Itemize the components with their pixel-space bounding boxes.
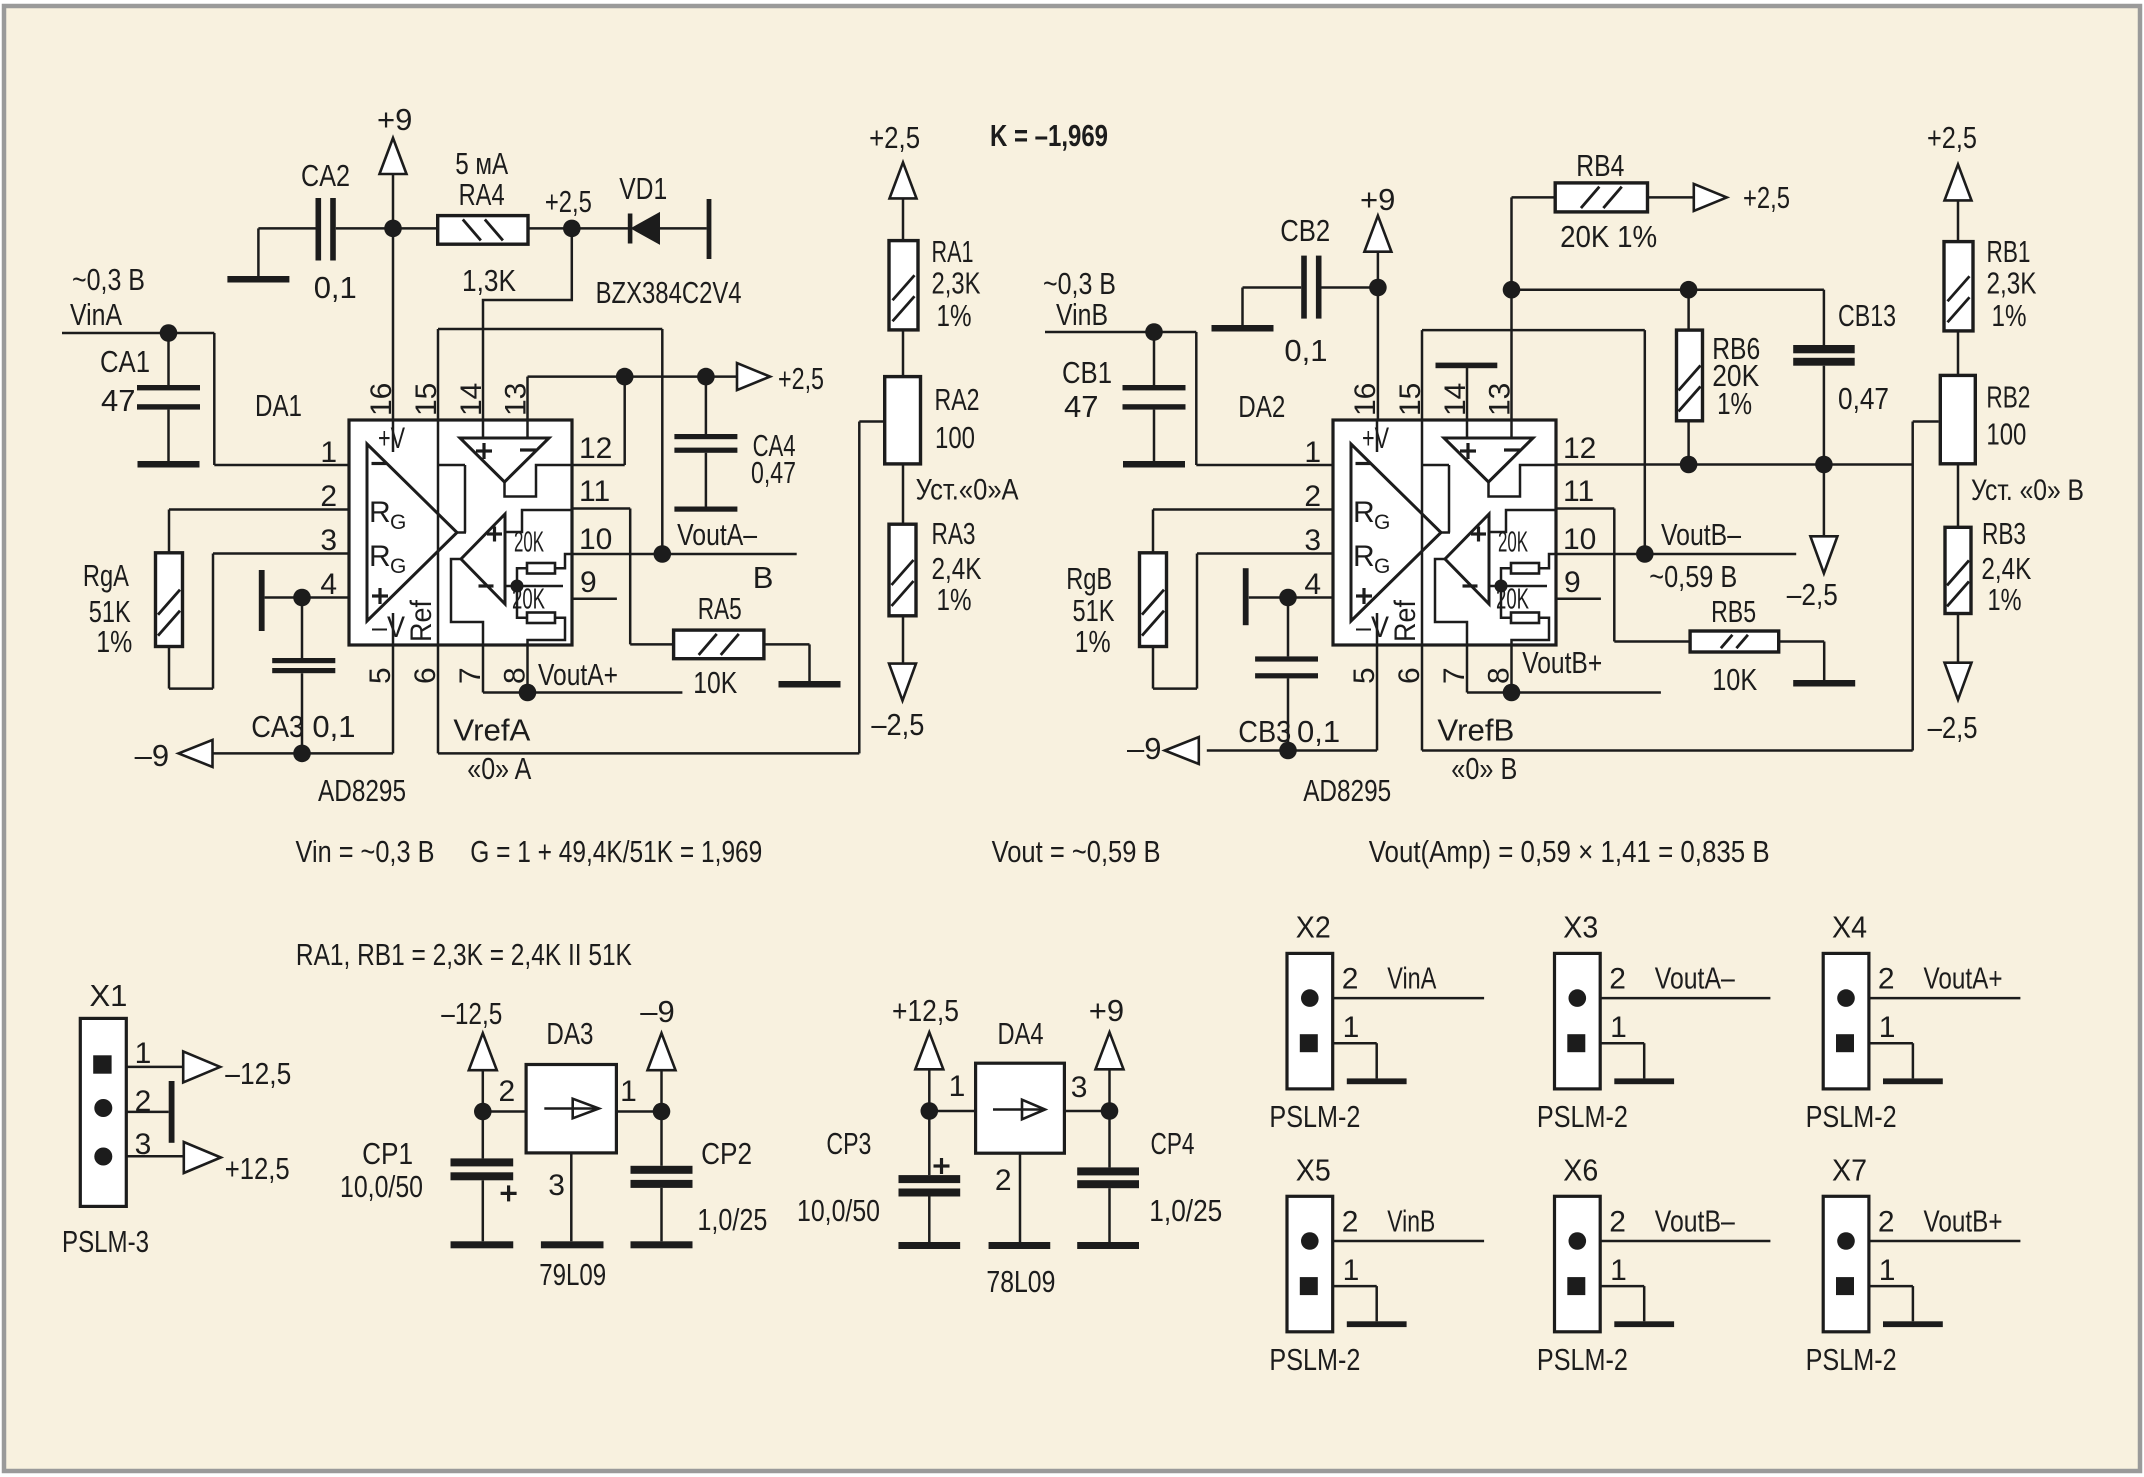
svg-text:0,1: 0,1	[1297, 714, 1340, 749]
wire pin14 bar terminal (B)	[1466, 368, 1469, 421]
svg-text:–9: –9	[640, 994, 674, 1029]
X6 pin1 square	[1567, 1277, 1585, 1295]
ground RA5	[779, 681, 841, 688]
capacitor CP1	[482, 1112, 485, 1159]
X6 pin2 circle	[1569, 1232, 1587, 1250]
X5 pin1 square	[1300, 1277, 1318, 1295]
svg-text:11: 11	[579, 475, 610, 508]
capacitor CB3	[1287, 598, 1290, 657]
arrow -12,5	[183, 1051, 220, 1082]
resistor RB2 (trim)	[1940, 375, 1975, 463]
svg-text:Vout(Amp) = 0,59 × 1,41 = 0,83: Vout(Amp) = 0,59 × 1,41 = 0,835 В	[1369, 834, 1770, 869]
arrow -12,5 up	[469, 1033, 497, 1070]
svg-text:VD1: VD1	[619, 171, 667, 206]
resistor RB1	[1944, 242, 1973, 331]
svg-text:VoutA+: VoutA+	[1924, 961, 2003, 996]
svg-text:+V: +V	[378, 422, 405, 455]
resistor RA5	[674, 630, 764, 659]
svg-text:2,4K: 2,4K	[1981, 551, 2031, 586]
svg-text:Уст. «0» В: Уст. «0» В	[1971, 474, 2084, 507]
X7 pin1 square	[1836, 1277, 1854, 1295]
wire pin15 top to VoutA- node	[438, 328, 662, 331]
ground CA4	[674, 507, 737, 512]
svg-text:R: R	[1353, 496, 1375, 529]
svg-text:3: 3	[1071, 1071, 1088, 1104]
DA3 arrow symbol	[544, 1107, 599, 1110]
arrow -2,5 (A)	[889, 664, 916, 701]
ground X2	[1347, 1078, 1407, 1084]
ground CA1	[138, 461, 200, 468]
svg-text:10,0/50: 10,0/50	[340, 1169, 423, 1204]
svg-text:RA5: RA5	[698, 591, 742, 626]
svg-text:X3: X3	[1563, 910, 1598, 945]
svg-text:CP3: CP3	[826, 1126, 871, 1161]
resistor RB4	[1512, 196, 1556, 199]
ground DA4	[989, 1242, 1051, 1249]
svg-text:CB2: CB2	[1280, 213, 1330, 248]
svg-text:G = 1 + 49,4K/51K = 1,969: G = 1 + 49,4K/51K = 1,969	[470, 834, 762, 869]
svg-text:VoutA–: VoutA–	[677, 517, 758, 552]
svg-text:100: 100	[935, 420, 975, 455]
in-amp triangle	[367, 444, 457, 621]
X7 pin2 wire VoutB+	[1869, 1240, 2021, 1243]
svg-text:5: 5	[364, 667, 397, 684]
svg-text:5 мA: 5 мA	[455, 146, 508, 181]
svg-text:1%: 1%	[1992, 298, 2027, 333]
svg-text:8: 8	[1483, 667, 1516, 684]
svg-text:1: 1	[1610, 1254, 1627, 1287]
capacitor CA3	[301, 598, 304, 659]
X7 pin2 circle	[1837, 1232, 1855, 1250]
X4 pin2 wire VoutA+	[1869, 997, 2021, 1000]
ground X3	[1614, 1078, 1674, 1084]
pin4 terminal bar	[259, 570, 265, 631]
svg-text:2: 2	[135, 1085, 152, 1118]
svg-text:10K: 10K	[1712, 662, 1757, 697]
minus mark pin1 input	[1356, 462, 1371, 465]
arrow -9 (B)	[1165, 737, 1199, 764]
svg-text:PSLM-2: PSLM-2	[1269, 1342, 1360, 1377]
svg-text:–9: –9	[1127, 731, 1161, 766]
svg-text:RB4: RB4	[1576, 148, 1624, 183]
svg-text:2: 2	[499, 1075, 516, 1108]
svg-text:0,47: 0,47	[1838, 381, 1889, 416]
svg-text:2: 2	[995, 1164, 1012, 1197]
svg-text:1%: 1%	[1717, 386, 1752, 421]
capacitor CP2	[660, 1112, 663, 1166]
plus mark pin4 input	[372, 594, 388, 597]
svg-text:В: В	[753, 560, 774, 595]
svg-text:2: 2	[1304, 480, 1321, 513]
svg-text:–V: –V	[1356, 611, 1389, 644]
pin4 terminal bar (B)	[1243, 568, 1249, 625]
svg-text:AD8295: AD8295	[318, 773, 406, 808]
bottom op-amp triangle	[461, 514, 505, 604]
arrow +2,5 (A mid)	[737, 363, 770, 390]
svg-text:R: R	[1353, 540, 1375, 573]
svg-text:+12,5: +12,5	[225, 1151, 290, 1186]
svg-text:7: 7	[454, 667, 487, 684]
svg-text:9: 9	[1564, 566, 1581, 599]
X2 pin1 square	[1300, 1034, 1318, 1052]
arrow +2,5 (RB4)	[1694, 184, 1727, 211]
svg-text:«0» В: «0» В	[1451, 751, 1517, 786]
ground CP3	[898, 1242, 960, 1249]
ground X4	[1883, 1078, 1943, 1084]
op-amp U DA1 AD8295 body	[349, 420, 572, 645]
node VinA input wire	[62, 332, 214, 335]
wire pin13 to +2,5 arrow	[526, 377, 529, 420]
X6 pin1 wire to ground	[1600, 1285, 1644, 1288]
svg-text:15: 15	[410, 383, 443, 416]
svg-text:VoutA–: VoutA–	[1655, 961, 1736, 996]
svg-text:VinB: VinB	[1056, 297, 1108, 332]
svg-text:3: 3	[1304, 524, 1321, 557]
wire pin12 line (B)	[1556, 463, 1913, 466]
svg-text:DA1: DA1	[255, 388, 302, 423]
svg-text:2,4K: 2,4K	[932, 551, 982, 586]
ground CB1	[1123, 461, 1185, 468]
svg-text:RA2: RA2	[935, 382, 980, 417]
svg-text:DA2: DA2	[1238, 389, 1285, 424]
svg-text:2: 2	[1342, 1205, 1359, 1238]
svg-text:Vin = ~0,3 В: Vin = ~0,3 В	[296, 834, 435, 869]
svg-text:PSLM-2: PSLM-2	[1537, 1099, 1628, 1134]
svg-text:Vout = ~0,59 В: Vout = ~0,59 В	[992, 834, 1161, 869]
svg-text:16: 16	[1349, 383, 1382, 416]
svg-text:1: 1	[1343, 1011, 1360, 1044]
resistor RB5	[1690, 631, 1779, 652]
X1 pin3 wire	[126, 1155, 183, 1158]
DA3 box	[526, 1065, 616, 1153]
internal 20K resistor lower	[1511, 613, 1539, 624]
svg-text:1,0/25: 1,0/25	[697, 1202, 767, 1237]
wire pin9 stub (B)	[1556, 598, 1601, 601]
svg-text:2,3K: 2,3K	[932, 266, 981, 301]
wire VoutA+	[482, 645, 485, 693]
svg-text:8: 8	[499, 667, 532, 684]
wire pin15 top to VoutB- node	[1422, 329, 1645, 332]
X1 pin1 square	[93, 1055, 111, 1073]
capacitor CP3	[928, 1111, 931, 1175]
svg-text:VoutB–: VoutB–	[1655, 1203, 1736, 1238]
X5 pin1 wire to ground	[1333, 1285, 1377, 1288]
svg-text:RB2: RB2	[1986, 380, 2030, 415]
capacitor CA2	[316, 198, 322, 261]
wire pin12 up to node	[572, 464, 625, 467]
wire pin15/pin6 vertical (Ref)	[437, 329, 440, 753]
wire RB4 to pin13	[1510, 197, 1513, 421]
svg-text:1: 1	[949, 1070, 966, 1103]
capacitor CP4	[1108, 1111, 1111, 1167]
wire CB2 left to ground	[1243, 286, 1302, 289]
wire CA2 left to ground	[258, 227, 315, 230]
svg-text:G: G	[390, 511, 406, 534]
svg-text:0,1: 0,1	[314, 270, 357, 305]
terminal bar after VD1	[707, 199, 712, 259]
ground CA2	[227, 276, 289, 283]
svg-text:0,47: 0,47	[751, 455, 796, 490]
svg-text:9: 9	[580, 566, 597, 599]
svg-text:2: 2	[1342, 963, 1359, 996]
DA4 box	[976, 1063, 1065, 1153]
X4 pin2 circle	[1837, 989, 1855, 1007]
svg-text:4: 4	[1304, 568, 1321, 601]
svg-text:1,0/25: 1,0/25	[1149, 1193, 1222, 1228]
top op-amp triangle	[1444, 438, 1533, 482]
svg-text:Уст.«0»А: Уст.«0»А	[916, 474, 1019, 507]
svg-text:X1: X1	[90, 978, 128, 1013]
diode VD1 BZX384C2V4	[572, 227, 630, 230]
svg-text:2: 2	[1609, 1205, 1626, 1238]
wire +9 to pin16	[392, 174, 395, 420]
svg-text:VrefA: VrefA	[453, 713, 530, 748]
svg-text:+9: +9	[377, 102, 412, 137]
svg-text:VrefB: VrefB	[1437, 713, 1514, 748]
svg-text:100: 100	[1986, 417, 2026, 452]
svg-text:1: 1	[1610, 1011, 1627, 1044]
svg-text:RgB: RgB	[1066, 561, 1112, 596]
svg-text:+9: +9	[1089, 993, 1124, 1028]
svg-text:DA3: DA3	[546, 1016, 593, 1051]
svg-text:BZX384C2V4: BZX384C2V4	[596, 275, 742, 310]
svg-text:X6: X6	[1563, 1152, 1598, 1187]
wire VinB to pin1	[1195, 332, 1198, 465]
svg-text:–9: –9	[135, 738, 169, 773]
X1 pin1 wire	[126, 1066, 183, 1069]
svg-text:–V: –V	[372, 611, 405, 644]
svg-text:1%: 1%	[1988, 582, 2022, 617]
svg-text:3: 3	[320, 524, 337, 557]
wire VrefA line	[438, 752, 859, 755]
X2 pin2 circle	[1301, 989, 1319, 1007]
wire pin9 stub	[572, 598, 617, 601]
X2 pin2 wire VinA	[1333, 997, 1484, 1000]
svg-text:VinA: VinA	[1387, 961, 1436, 996]
svg-text:78L09: 78L09	[986, 1264, 1055, 1299]
svg-text:X2: X2	[1296, 910, 1331, 945]
svg-text:CB3: CB3	[1238, 714, 1291, 749]
svg-text:R: R	[369, 496, 391, 529]
svg-text:RA1, RB1 = 2,3K = 2,4K II 51K: RA1, RB1 = 2,3K = 2,4K II 51K	[296, 937, 632, 972]
svg-text:~0,3 В: ~0,3 В	[1043, 266, 1116, 301]
X6 pin2 wire VoutB–	[1600, 1240, 1770, 1243]
svg-text:RB3: RB3	[1982, 516, 2026, 551]
wire VinA to pin1	[213, 333, 216, 465]
svg-text:G: G	[1374, 555, 1390, 578]
svg-text:51K: 51K	[1073, 593, 1115, 628]
svg-text:RA3: RA3	[932, 516, 976, 551]
X3 pin1 square	[1567, 1034, 1585, 1052]
svg-text:+2,5: +2,5	[545, 184, 592, 219]
in-amp triangle	[1351, 444, 1441, 621]
svg-text:47: 47	[1064, 389, 1098, 424]
svg-text:X4: X4	[1832, 910, 1867, 945]
svg-text:1: 1	[1343, 1254, 1360, 1287]
wire pin15 vertical (B)	[1421, 330, 1424, 750]
internal 20K resistor upper	[527, 563, 555, 574]
svg-text:+12,5: +12,5	[892, 993, 959, 1028]
svg-text:11: 11	[1563, 475, 1594, 508]
svg-text:2: 2	[1878, 963, 1895, 996]
svg-text:VinA: VinA	[70, 297, 122, 332]
resistor RB3	[1945, 527, 1971, 613]
svg-text:2,3K: 2,3K	[1987, 266, 2037, 301]
svg-text:G: G	[1374, 511, 1390, 534]
svg-text:12: 12	[579, 432, 612, 465]
svg-text:15: 15	[1394, 383, 1427, 416]
svg-text:CA3: CA3	[251, 709, 304, 744]
ground CP4	[1077, 1242, 1139, 1249]
svg-text:1,3K: 1,3K	[462, 263, 516, 298]
wire VoutB+	[1466, 646, 1469, 693]
arrow +12,5 up	[915, 1032, 943, 1069]
X5 pin2 circle	[1301, 1232, 1319, 1250]
resistor RA4	[393, 227, 438, 230]
minus mark pin1 input	[372, 462, 387, 465]
svg-text:0,1: 0,1	[312, 709, 355, 744]
svg-text:20K 1%: 20K 1%	[1560, 219, 1657, 254]
svg-text:+2,5: +2,5	[1927, 120, 1977, 155]
svg-text:VoutB+: VoutB+	[1522, 645, 1602, 680]
svg-text:RA1: RA1	[932, 234, 974, 269]
svg-text:79L09: 79L09	[539, 1257, 606, 1292]
resistor RA1	[889, 241, 918, 330]
wire pin11 to RB5	[1556, 507, 1614, 510]
svg-text:RB5: RB5	[1711, 594, 1756, 629]
svg-text:CB13: CB13	[1838, 298, 1896, 333]
svg-text:X5: X5	[1296, 1152, 1331, 1187]
svg-text:1: 1	[1304, 436, 1321, 469]
svg-text:4: 4	[320, 568, 337, 601]
svg-text:16: 16	[365, 383, 398, 416]
ground X5	[1347, 1321, 1407, 1327]
internal 20K resistor lower	[527, 613, 555, 624]
svg-text:PSLM-2: PSLM-2	[1806, 1099, 1897, 1134]
svg-text:~0,3 В: ~0,3 В	[72, 262, 145, 297]
capacitor CA1	[167, 333, 170, 385]
DA4 pin2 wire	[1019, 1153, 1022, 1242]
svg-text:RB1: RB1	[1987, 234, 2031, 269]
resistor RA3	[889, 524, 916, 616]
resistor RgB	[1153, 508, 1333, 511]
wire CA2 right	[336, 227, 393, 230]
wire pin11 to RA5	[572, 507, 630, 510]
svg-text:2: 2	[1609, 963, 1626, 996]
CP1 plus mark	[501, 1192, 517, 1195]
DA3 pin3 wire	[570, 1153, 573, 1241]
svg-text:10: 10	[579, 523, 612, 556]
ground X6	[1614, 1321, 1674, 1327]
svg-text:12: 12	[1563, 432, 1596, 465]
svg-text:–2,5: –2,5	[1787, 577, 1838, 612]
bottom op-amp triangle	[1445, 514, 1489, 604]
svg-text:2: 2	[1878, 1205, 1895, 1238]
top op-amp triangle	[460, 438, 549, 482]
svg-text:47: 47	[101, 383, 135, 418]
X1 pin2 circle	[94, 1099, 112, 1117]
svg-text:+2,5: +2,5	[1743, 180, 1790, 215]
svg-text:CP2: CP2	[701, 1136, 752, 1171]
capacitor CB2	[1301, 256, 1307, 319]
X1 pin2 wire to bar	[126, 1111, 168, 1114]
DA4 arrow symbol	[993, 1108, 1045, 1111]
svg-text:PSLM-2: PSLM-2	[1806, 1342, 1897, 1377]
ground X7	[1883, 1321, 1943, 1327]
X2 pin1 wire to ground	[1333, 1042, 1377, 1045]
svg-text:–2,5: –2,5	[871, 707, 924, 742]
wire -9 line (B)	[1207, 749, 1377, 752]
svg-text:PSLM-2: PSLM-2	[1537, 1342, 1628, 1377]
svg-text:1%: 1%	[96, 624, 132, 659]
resistor RA2 (trim)	[885, 377, 921, 464]
svg-text:CP4: CP4	[1151, 1126, 1195, 1161]
X3 pin2 wire VoutA–	[1600, 997, 1770, 1000]
svg-text:Ref: Ref	[405, 599, 438, 642]
wire +2,5 node down-left to pin14	[483, 228, 572, 420]
ground CB2	[1212, 325, 1274, 332]
svg-text:G: G	[390, 555, 406, 578]
svg-text:AD8295: AD8295	[1303, 773, 1391, 808]
svg-text:CB1: CB1	[1062, 355, 1112, 390]
svg-text:6: 6	[1393, 667, 1426, 684]
svg-text:VoutB+: VoutB+	[1924, 1203, 2003, 1238]
wire VrefB line	[1422, 749, 1913, 752]
svg-text:VoutA+: VoutA+	[538, 657, 618, 692]
svg-text:14: 14	[1439, 383, 1472, 416]
op-amp U DA2 AD8295 body	[1333, 420, 1556, 645]
capacitor CB13	[1823, 290, 1826, 345]
X1 pin3 circle	[94, 1148, 112, 1166]
svg-text:CA2: CA2	[301, 158, 350, 193]
svg-text:10K: 10K	[693, 665, 737, 700]
svg-text:DA4: DA4	[998, 1016, 1044, 1051]
internal 20K resistor upper	[1511, 563, 1539, 574]
svg-text:VinB: VinB	[1387, 1203, 1435, 1238]
X7 pin1 wire to ground	[1869, 1285, 1913, 1288]
svg-text:+2,5: +2,5	[778, 361, 824, 396]
svg-text:1: 1	[320, 436, 337, 469]
svg-text:3: 3	[548, 1169, 565, 1202]
svg-text:–12,5: –12,5	[225, 1056, 291, 1091]
svg-text:K = –1,969: K = –1,969	[990, 118, 1108, 153]
svg-text:~0,59 В: ~0,59 В	[1649, 559, 1737, 594]
arrow -2,5 (B)	[1945, 663, 1972, 700]
svg-text:14: 14	[455, 383, 488, 416]
svg-text:1%: 1%	[937, 298, 972, 333]
internal wires	[392, 420, 395, 452]
wire CB2 right	[1322, 286, 1378, 289]
svg-text:RA4: RA4	[459, 177, 505, 212]
ground CP2	[631, 1241, 693, 1248]
node VinB input wire	[1045, 331, 1196, 334]
ground CP1	[451, 1241, 514, 1248]
X3 pin1 wire to ground	[1600, 1042, 1644, 1045]
ground DA3	[541, 1241, 604, 1248]
svg-text:1: 1	[1879, 1011, 1896, 1044]
wire VoutA- (pin10)	[572, 553, 797, 556]
svg-text:+V: +V	[1362, 422, 1389, 455]
svg-text:1%: 1%	[937, 582, 972, 617]
svg-text:–12,5: –12,5	[441, 996, 502, 1031]
svg-text:2: 2	[320, 480, 337, 513]
CP3 plus mark	[934, 1164, 950, 1167]
svg-text:+2,5: +2,5	[869, 120, 920, 155]
svg-text:10,0/50: 10,0/50	[797, 1193, 880, 1228]
svg-text:1: 1	[620, 1075, 637, 1108]
ground RB5	[1793, 680, 1855, 687]
svg-text:RgA: RgA	[83, 558, 129, 593]
